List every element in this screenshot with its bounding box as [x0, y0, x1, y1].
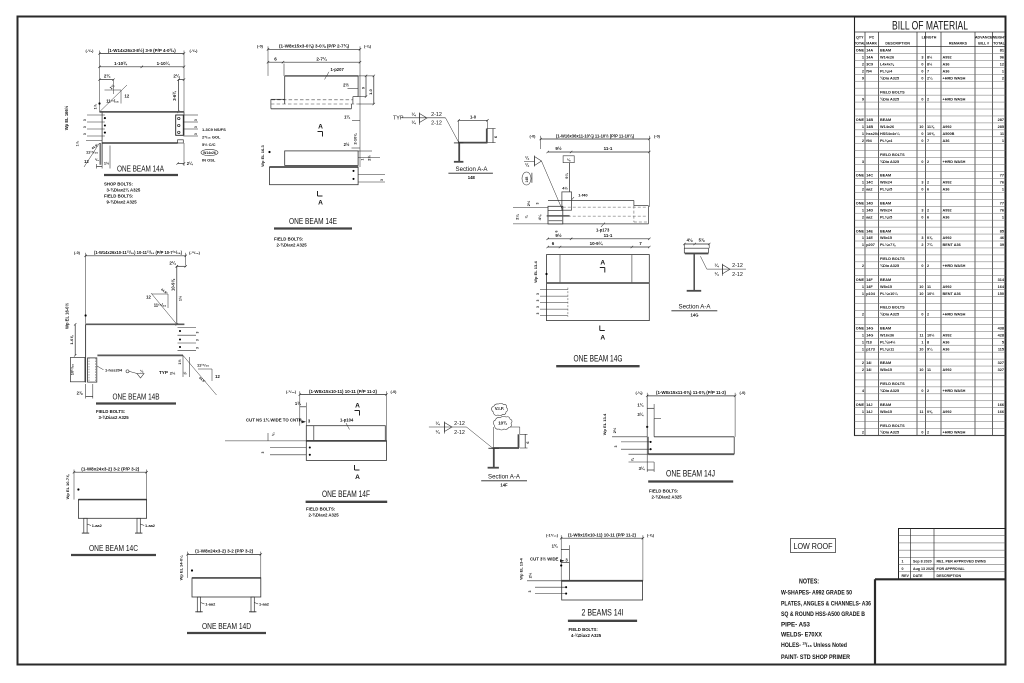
beam 14B bottom flange	[97, 354, 183, 356]
beam 14G overall dimension line	[530, 133, 661, 207]
beam 14A top flange	[100, 111, 185, 113]
svg-text:p104: p104	[866, 292, 876, 296]
svg-text:0: 0	[921, 132, 923, 136]
svg-text:(-³/₈): (-³/₈)	[86, 49, 95, 53]
svg-text:(-1⁵/₁₆): (-1⁵/₁₆)	[546, 534, 559, 538]
svg-text:1-10¾: 1-10¾	[114, 60, 128, 66]
svg-text:10: 10	[919, 368, 923, 372]
svg-text:428: 428	[998, 333, 1004, 337]
beam 14B right slope triangle lower	[183, 355, 220, 395]
svg-text:2½: 2½	[526, 200, 531, 206]
svg-text:PIPE- A53: PIPE- A53	[781, 622, 810, 629]
svg-text:A992: A992	[943, 236, 952, 240]
svg-text:10½: 10½	[927, 333, 934, 337]
svg-text:11-1: 11-1	[604, 233, 613, 238]
svg-text:1-0: 1-0	[470, 115, 477, 120]
beam 14J work point	[602, 413, 648, 437]
svg-text:438: 438	[998, 327, 1004, 331]
svg-text:10: 10	[919, 347, 923, 351]
svg-text:REMARKS: REMARKS	[949, 42, 968, 46]
svg-text:4½: 4½	[562, 186, 568, 191]
svg-text:314: 314	[998, 278, 1005, 282]
svg-text:ONE: ONE	[856, 201, 865, 205]
svg-text:8½: 8½	[927, 63, 932, 67]
svg-text:2½: 2½	[343, 83, 349, 88]
beam 14B hss label and weld	[97, 366, 168, 378]
svg-text:11: 11	[919, 410, 923, 414]
beam 14B right end bolts	[179, 330, 181, 348]
beam 14F bolts	[309, 446, 311, 455]
svg-text:FIELD BOLTS: FIELD BOLTS	[880, 306, 905, 310]
svg-text:1: 1	[862, 292, 864, 296]
section A-A 14G plate and flange	[684, 248, 708, 253]
beam 14G plan hidden lines	[563, 207, 646, 216]
svg-text:14A: 14A	[866, 56, 873, 60]
beam 14C outline	[78, 500, 146, 519]
svg-text:11: 11	[1000, 132, 1004, 136]
svg-text:5⅞: 5⅞	[699, 238, 705, 243]
beam 14B overall dimension line	[74, 250, 201, 324]
svg-text:9¼: 9¼	[927, 347, 933, 351]
svg-text:ONE: ONE	[856, 174, 865, 178]
svg-text:A: A	[600, 335, 605, 342]
weld callout typ for section A-A 14E	[393, 111, 459, 142]
beam 14A left bolt gauge ticks	[83, 115, 105, 136]
beam 14A work point elevation label	[64, 102, 101, 130]
svg-text:BILL OF MATERIAL: BILL OF MATERIAL	[892, 21, 968, 33]
beam 14E beam outline	[270, 167, 359, 185]
svg-text:0: 0	[921, 313, 923, 317]
svg-text:FIELD BOLTS:: FIELD BOLTS:	[306, 507, 336, 512]
svg-text:9: 9	[862, 76, 864, 80]
svg-text:1-3C9 NS/FS: 1-3C9 NS/FS	[202, 127, 226, 132]
beam 14E title	[274, 216, 352, 229]
svg-text:11⅞: 11⅞	[927, 125, 935, 129]
svg-text:2: 2	[927, 181, 929, 185]
beam 14J overall dimension line	[636, 390, 747, 437]
svg-text:2⁹/₁₆ GOL: 2⁹/₁₆ GOL	[202, 135, 221, 140]
svg-text:0: 0	[921, 215, 923, 219]
svg-text:77: 77	[1000, 174, 1004, 178]
svg-text:3: 3	[196, 347, 200, 349]
beam 14E bent plate lower edge and dashes	[271, 99, 358, 109]
beam 14B right cope dims	[170, 355, 190, 377]
beam 14A right 2-1/4 and 3-6-3/4 dimension	[172, 73, 185, 114]
svg-text:1-hss204: 1-hss204	[105, 368, 123, 373]
beam 14E section cut A lower	[318, 191, 324, 207]
beam 14A right end and end plate	[176, 112, 184, 136]
svg-text:(-⅛): (-⅛)	[364, 45, 372, 49]
svg-text:14J: 14J	[866, 410, 872, 414]
beam 14F left leader dims	[225, 432, 306, 455]
svg-text:FIELD BOLTS: FIELD BOLTS	[880, 382, 905, 386]
svg-text:4⅛: 4⅛	[537, 214, 542, 220]
svg-text:(-⅛): (-⅛)	[636, 391, 644, 395]
svg-text:2½: 2½	[344, 142, 350, 147]
svg-text:FIELD BOLTS:: FIELD BOLTS:	[96, 409, 126, 414]
svg-text:14G: 14G	[866, 327, 873, 331]
svg-text:1: 1	[1002, 69, 1004, 73]
svg-text:A36: A36	[943, 347, 950, 351]
svg-text:3: 3	[921, 236, 923, 240]
beam 14C clip labels	[87, 523, 156, 528]
svg-text:(-⅞): (-⅞)	[647, 534, 655, 538]
svg-text:11: 11	[927, 368, 931, 372]
svg-text:FIELD BOLTS:: FIELD BOLTS:	[104, 194, 134, 199]
svg-text:¹/₂: ¹/₂	[95, 158, 99, 162]
svg-text:TYP: TYP	[393, 116, 404, 122]
svg-text:1-aa2: 1-aa2	[259, 602, 270, 607]
svg-text:+HRD WASH: +HRD WASH	[943, 264, 966, 268]
beam 14B right slope triangle	[146, 287, 182, 324]
svg-text:Wp EL 16-0½: Wp EL 16-0½	[65, 303, 70, 329]
svg-text:PC: PC	[869, 36, 874, 40]
svg-text:2¼: 2¼	[927, 76, 933, 80]
svg-text:1½: 1½	[178, 359, 182, 364]
svg-text:PL⅜x4: PL⅜x4	[880, 139, 893, 143]
svg-text:14C: 14C	[866, 181, 873, 185]
svg-text:3¼: 3¼	[637, 412, 643, 417]
svg-text:9: 9	[862, 97, 864, 101]
svg-text:2-7¼: 2-7¼	[316, 55, 328, 61]
beam 14E section cut A upper	[318, 124, 324, 137]
svg-text:2: 2	[862, 69, 864, 73]
svg-text:10-9⅞: 10-9⅞	[171, 279, 176, 291]
beam 14F plate label	[340, 418, 354, 430]
beam 14A left slope triangle	[100, 84, 130, 112]
svg-text:BEAM: BEAM	[880, 174, 891, 178]
section A-A 14E title	[448, 166, 493, 180]
svg-text:1-p207: 1-p207	[331, 67, 345, 72]
beam 14B work point label	[65, 303, 87, 329]
svg-text:2: 2	[927, 264, 929, 268]
svg-text:FIELD BOLTS: FIELD BOLTS	[880, 153, 905, 157]
svg-text:A992: A992	[943, 208, 952, 212]
low roof label	[791, 539, 836, 553]
svg-text:2-10⅝: 2-10⅝	[352, 133, 357, 145]
svg-text:ONE BEAM 14F: ONE BEAM 14F	[322, 489, 370, 499]
svg-text:(-¹³/₁₆): (-¹³/₁₆)	[189, 251, 200, 255]
svg-text:14J: 14J	[866, 403, 872, 407]
svg-text:FIELD BOLTS: FIELD BOLTS	[880, 90, 905, 94]
beam 14E right vertical dims	[343, 75, 375, 106]
beam 14G work point	[533, 260, 548, 282]
beam 14F title	[306, 489, 388, 502]
svg-text:1-10¼: 1-10¼	[157, 60, 171, 66]
svg-text:FOR APPROVAL: FOR APPROVAL	[937, 567, 966, 571]
svg-text:6: 6	[927, 215, 929, 219]
beam 14B title	[96, 392, 176, 404]
svg-text:aa2: aa2	[866, 188, 872, 192]
beam 14A second dimension line	[98, 60, 185, 68]
svg-text:W14x26: W14x26	[880, 56, 894, 60]
beam 14E bolt notes	[274, 237, 307, 248]
svg-text:PL⅜x11: PL⅜x11	[880, 347, 894, 351]
svg-text:7: 7	[927, 69, 929, 73]
svg-text:4-¾Diax2 A325: 4-¾Diax2 A325	[571, 633, 602, 638]
svg-text:Wp EL 16-3: Wp EL 16-3	[260, 144, 265, 166]
svg-text:14B: 14B	[525, 176, 529, 183]
svg-text:0: 0	[921, 389, 923, 393]
beam 14G title	[556, 354, 639, 367]
svg-text:39: 39	[1000, 243, 1004, 247]
beam 14J left dims	[637, 402, 661, 418]
beam 14G section cut A upper	[600, 260, 606, 273]
svg-text:(-0): (-0)	[391, 390, 398, 394]
svg-text:14G: 14G	[691, 312, 699, 317]
svg-text:164: 164	[998, 285, 1005, 289]
svg-text:A992: A992	[943, 56, 952, 60]
svg-text:+HRD WASH: +HRD WASH	[943, 160, 966, 164]
svg-text:9½: 9½	[555, 145, 562, 151]
beam 14G fourth dimension line	[547, 240, 651, 248]
svg-text:0: 0	[921, 139, 923, 143]
svg-text:2½: 2½	[528, 572, 533, 578]
svg-text:PL¼x7⅞: PL¼x7⅞	[880, 243, 896, 247]
svg-text:A36: A36	[943, 340, 950, 344]
svg-text:2: 2	[862, 139, 864, 143]
svg-text:SQ & ROUND HSS-A500 GRADE B: SQ & ROUND HSS-A500 GRADE B	[781, 611, 865, 618]
beam 14A right connection note	[201, 127, 226, 163]
beam 14A right bolt gauge ticks	[183, 115, 198, 136]
svg-text:14E: 14E	[866, 229, 873, 233]
svg-text:1: 1	[862, 236, 864, 240]
svg-text:1: 1	[361, 158, 365, 160]
svg-text:DATE: DATE	[913, 574, 923, 578]
svg-text:A992: A992	[943, 410, 952, 414]
beam 14C title	[71, 543, 156, 555]
svg-text:2: 2	[862, 361, 864, 365]
beam 14D title	[187, 621, 266, 633]
svg-text:327: 327	[998, 368, 1004, 372]
svg-text:+HRD WASH: +HRD WASH	[943, 389, 966, 393]
svg-text:FIELD BOLTS:: FIELD BOLTS:	[274, 237, 304, 242]
svg-text:HSS4x4x¼: HSS4x4x¼	[880, 132, 900, 136]
beams 14I bolt notes	[569, 627, 602, 638]
svg-text:ONE BEAM 14E: ONE BEAM 14E	[289, 216, 337, 226]
svg-text:0: 0	[921, 431, 923, 435]
svg-text:(1-W8x24x3-2) 3-2 (P/P 3-2): (1-W8x24x3-2) 3-2 (P/P 3-2)	[195, 549, 254, 554]
svg-text:¾Dia A325: ¾Dia A325	[880, 160, 899, 164]
beam 14E work point	[260, 144, 271, 166]
svg-text:10-9¼: 10-9¼	[590, 240, 604, 246]
beam 14G plan region outline	[548, 201, 648, 224]
svg-text:1: 1	[862, 56, 864, 60]
title block outline	[875, 579, 1006, 664]
svg-text:150: 150	[998, 292, 1004, 296]
svg-text:W16x36: W16x36	[880, 333, 894, 337]
svg-text:2-12: 2-12	[732, 263, 743, 269]
svg-text:V.I.F.: V.I.F.	[495, 406, 505, 411]
svg-text:3: 3	[536, 202, 540, 204]
svg-text:0: 0	[921, 264, 923, 268]
beam 14G weld flag	[524, 154, 562, 209]
svg-text:Wp EL 166½: Wp EL 166½	[64, 105, 69, 130]
svg-text:3: 3	[194, 119, 198, 121]
svg-text:9¼: 9¼	[564, 173, 569, 179]
beam 14B left column plate	[70, 358, 85, 382]
svg-text:MARK: MARK	[866, 42, 877, 46]
svg-text:IN OSL: IN OSL	[202, 158, 216, 163]
svg-text:1¹/₂: 1¹/₂	[76, 140, 80, 146]
svg-text:TYP: TYP	[159, 370, 168, 375]
svg-text:Aug 13 2020: Aug 13 2020	[913, 567, 934, 571]
svg-text:1¾: 1¾	[295, 401, 301, 406]
svg-text:76: 76	[1000, 208, 1004, 212]
beam 14A bottom left cope dimensions	[76, 140, 111, 168]
svg-text:8½: 8½	[927, 56, 932, 60]
svg-text:7¾: 7¾	[927, 243, 933, 247]
beam 14E second dimension line	[267, 55, 361, 76]
notes text block	[781, 579, 871, 662]
beam 14D dimension line	[186, 549, 262, 578]
svg-text:0: 0	[921, 188, 923, 192]
svg-text:ONE BEAM 14C: ONE BEAM 14C	[89, 543, 138, 553]
svg-text:3: 3	[536, 312, 540, 314]
beam 14A left bolts	[104, 117, 106, 134]
svg-text:ONE BEAM 14J: ONE BEAM 14J	[666, 469, 715, 479]
section A-A 14F vif bubble	[492, 403, 508, 415]
svg-text:5½ C/C: 5½ C/C	[202, 142, 216, 147]
beam 14B left end edge	[85, 324, 87, 382]
svg-text:1¹/₂: 1¹/₂	[94, 103, 98, 109]
svg-text:p207: p207	[866, 243, 875, 247]
svg-text:3: 3	[536, 306, 540, 308]
svg-text:W8x15: W8x15	[880, 410, 892, 414]
svg-text:0: 0	[921, 76, 923, 80]
svg-text:2: 2	[862, 215, 864, 219]
svg-text:10: 10	[919, 292, 923, 296]
beam 14E bent plate top	[285, 76, 358, 104]
svg-text:10¾: 10¾	[498, 420, 507, 425]
svg-text:A: A	[355, 474, 360, 481]
svg-text:2 BEAMS 14I: 2 BEAMS 14I	[582, 608, 624, 618]
svg-text:3: 3	[921, 56, 923, 60]
beams 14I bolts	[528, 586, 567, 594]
svg-text:(-0): (-0)	[654, 134, 661, 138]
svg-text:LENGTH: LENGTH	[922, 36, 937, 40]
beams 14I work point	[519, 557, 563, 580]
svg-text:1: 1	[1002, 215, 1004, 219]
beam 14A web left edge	[100, 112, 102, 165]
svg-text:11¹⁵/₁₆: 11¹⁵/₁₆	[106, 98, 119, 103]
svg-text:Wp EL 13-4: Wp EL 13-4	[602, 413, 607, 435]
beam 14G left stub dims	[513, 200, 548, 224]
beam 14A bottom flange	[102, 142, 178, 144]
svg-text:1-0⅞: 1-0⅞	[69, 335, 74, 345]
beam 14J notch step	[647, 397, 654, 472]
section A-A 14E angle sketch	[458, 115, 498, 143]
svg-text:(1-W14x26x10-11¹³/₁₆) 10-11¹³: (1-W14x26x10-11¹³/₁₆) 10-11¹³/₁₆ (P/P 10…	[94, 250, 182, 255]
svg-text:BILL #: BILL #	[978, 42, 989, 46]
beam 14F overall dimension line	[286, 389, 397, 441]
svg-text:W14x26: W14x26	[880, 125, 894, 129]
svg-text:ONE BEAM 14A: ONE BEAM 14A	[117, 164, 164, 174]
beam 14C work point label	[65, 474, 80, 499]
svg-text:ONE: ONE	[856, 327, 865, 331]
svg-text:287: 287	[998, 118, 1004, 122]
svg-text:A: A	[600, 260, 605, 267]
svg-text:166: 166	[998, 410, 1004, 414]
svg-text:FIELD BOLTS: FIELD BOLTS	[880, 424, 905, 428]
svg-text:W8x15: W8x15	[880, 236, 892, 240]
svg-text:96: 96	[1000, 56, 1004, 60]
svg-text:+HRD WASH: +HRD WASH	[943, 97, 966, 101]
svg-text:A36: A36	[943, 215, 950, 219]
svg-text:DESCRIPTION: DESCRIPTION	[885, 42, 910, 46]
beam 14G top plate	[562, 186, 589, 211]
svg-text:A36: A36	[943, 63, 950, 67]
beam 14G second dimension line	[547, 145, 651, 153]
svg-text:1: 1	[862, 208, 864, 212]
svg-text:A992: A992	[943, 285, 952, 289]
svg-text:PLATES, ANGLES & CHANNELS- A36: PLATES, ANGLES & CHANNELS- A36	[781, 601, 871, 608]
beam 14F beam outline	[306, 441, 386, 461]
svg-text:1: 1	[1002, 139, 1004, 143]
beam 14J beam outline	[648, 437, 734, 454]
svg-text:W-SHAPES- A992 GRADE 50: W-SHAPES- A992 GRADE 50	[781, 590, 852, 597]
svg-text:3: 3	[536, 293, 540, 295]
svg-text:14F: 14F	[866, 285, 873, 289]
svg-text:W8x15: W8x15	[880, 285, 892, 289]
svg-text:Wp EL 13-4: Wp EL 13-4	[519, 557, 524, 579]
svg-text:10¹³/₁₆: 10¹³/₁₆	[70, 364, 75, 376]
beam 14C dimension line	[73, 467, 148, 500]
beams 14I top flange	[561, 580, 642, 582]
section A-A 14G title	[671, 303, 717, 317]
svg-text:A: A	[318, 200, 323, 207]
svg-text:BEAM: BEAM	[880, 49, 891, 53]
beams 14I title	[568, 608, 637, 621]
svg-text:Wp EL 14-0⅛: Wp EL 14-0⅛	[179, 555, 184, 580]
svg-text:9½: 9½	[555, 232, 562, 238]
svg-text:2½: 2½	[170, 371, 176, 376]
svg-text:1-aa2: 1-aa2	[145, 523, 156, 528]
svg-text:(-³/₈): (-³/₈)	[190, 49, 199, 53]
svg-text:9-¾Diax2 A325: 9-¾Diax2 A325	[107, 200, 138, 205]
svg-text:3: 3	[196, 339, 200, 341]
svg-text:0: 0	[921, 69, 923, 73]
svg-text:76: 76	[1000, 181, 1004, 185]
svg-text:0: 0	[921, 97, 923, 101]
beam 14J top flange	[654, 436, 734, 438]
svg-text:(1-W14x26x3-8½) 3-9 (P/P 4-0: (1-W14x26x3-8½) 3-9 (P/P 4-0³/₈)	[108, 47, 176, 53]
svg-text:3: 3	[536, 299, 540, 301]
svg-text:CUT NS 1¾ WIDE TO CNTR: CUT NS 1¾ WIDE TO CNTR	[246, 417, 303, 422]
svg-text:0: 0	[921, 63, 923, 67]
section A-A 14F title	[481, 473, 527, 487]
svg-text:14F: 14F	[500, 482, 508, 487]
svg-text:14B: 14B	[866, 118, 873, 122]
svg-text:ONE BEAM 14G: ONE BEAM 14G	[574, 354, 623, 364]
svg-text:BENT A36: BENT A36	[943, 243, 961, 247]
svg-text:10: 10	[919, 125, 923, 129]
svg-text:3-¾Diax2 A325: 3-¾Diax2 A325	[99, 415, 130, 420]
svg-text:PL⅜x5: PL⅜x5	[880, 215, 892, 219]
svg-text:f18: f18	[866, 340, 872, 344]
svg-text:11-1: 11-1	[604, 146, 613, 151]
svg-text:3: 3	[194, 133, 198, 135]
svg-text:BEAM: BEAM	[880, 403, 891, 407]
svg-text:2: 2	[921, 243, 923, 247]
section A-A 14F angle sketch	[493, 427, 530, 448]
svg-text:¾Dia A325: ¾Dia A325	[880, 97, 899, 101]
svg-text:Wp EL 13-4: Wp EL 13-4	[533, 260, 538, 282]
svg-text:TOTAL: TOTAL	[993, 42, 1005, 46]
svg-text:Section A-A: Section A-A	[488, 473, 520, 480]
svg-text:PL¾x4½: PL¾x4½	[880, 340, 895, 344]
svg-text:2: 2	[1002, 76, 1004, 80]
